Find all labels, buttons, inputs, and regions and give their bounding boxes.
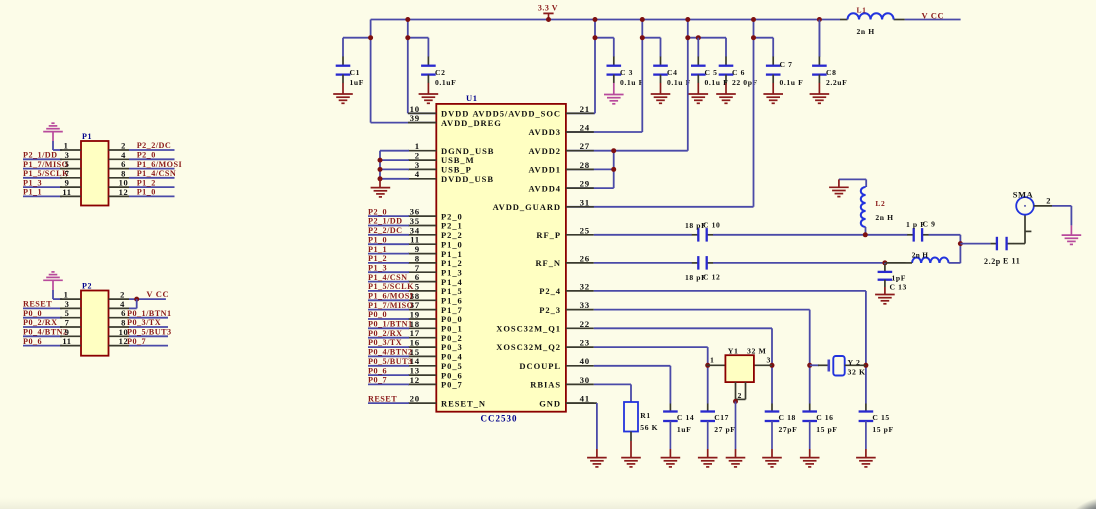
svg-text:0.1uF: 0.1uF [435, 78, 456, 87]
svg-text:C4: C4 [667, 68, 677, 77]
svg-text:P1_4/CSN: P1_4/CSN [368, 273, 408, 282]
svg-text:2: 2 [738, 391, 743, 400]
svg-text:P1_7/MISO: P1_7/MISO [23, 160, 68, 169]
svg-text:P0_5/BUT3: P0_5/BUT3 [127, 328, 172, 337]
svg-text:R1: R1 [640, 411, 650, 420]
svg-text:P2_4: P2_4 [539, 286, 561, 296]
svg-text:DVDD_USB: DVDD_USB [441, 174, 494, 184]
svg-text:P0_7: P0_7 [441, 380, 463, 390]
svg-text:C 6: C 6 [732, 68, 745, 77]
svg-text:C 3: C 3 [620, 68, 633, 77]
svg-text:P1_6/MOSI: P1_6/MOSI [368, 292, 413, 301]
svg-text:2n H: 2n H [857, 27, 875, 36]
svg-text:2.2uF: 2.2uF [826, 78, 847, 87]
svg-text:AVDD_DREG: AVDD_DREG [441, 118, 502, 128]
svg-text:32 K: 32 K [848, 368, 866, 377]
svg-text:29: 29 [580, 179, 590, 189]
svg-text:2n H: 2n H [875, 213, 893, 222]
svg-text:C 5: C 5 [705, 68, 718, 77]
svg-text:P1_5/SCLK: P1_5/SCLK [23, 169, 69, 178]
svg-text:C 13: C 13 [890, 283, 907, 292]
svg-text:P1_2: P1_2 [368, 254, 387, 263]
svg-text:P0_7: P0_7 [127, 337, 146, 346]
svg-text:AVDD4: AVDD4 [529, 183, 561, 193]
svg-text:DCOUPL: DCOUPL [519, 361, 561, 371]
svg-text:1: 1 [64, 141, 69, 151]
svg-text:AVDD3: AVDD3 [529, 127, 561, 137]
svg-text:21: 21 [580, 104, 590, 114]
svg-text:RESET: RESET [368, 394, 397, 403]
svg-text:RBIAS: RBIAS [530, 380, 561, 390]
svg-text:P0_1/BTN1: P0_1/BTN1 [127, 309, 172, 318]
svg-text:C17: C17 [714, 413, 729, 422]
svg-text:P2_2/DC: P2_2/DC [368, 226, 403, 235]
svg-text:P1_3: P1_3 [23, 178, 42, 187]
svg-text:20: 20 [410, 394, 420, 404]
svg-text:2: 2 [1046, 196, 1051, 206]
svg-text:C 12: C 12 [703, 273, 720, 282]
svg-text:1uF: 1uF [350, 78, 364, 87]
svg-text:AVDD1: AVDD1 [529, 165, 561, 175]
svg-text:C1: C1 [350, 68, 360, 77]
svg-text:P2: P2 [82, 282, 92, 291]
svg-text:SMA: SMA [1013, 190, 1034, 200]
svg-text:P0_0: P0_0 [368, 310, 387, 319]
svg-text:P1_0: P1_0 [137, 188, 156, 197]
svg-text:P2_0: P2_0 [368, 207, 387, 216]
svg-text:C8: C8 [826, 68, 836, 77]
svg-text:P0_2/RX: P0_2/RX [23, 318, 58, 327]
svg-text:27 pF: 27 pF [714, 425, 735, 434]
svg-text:Y1: Y1 [728, 347, 739, 356]
svg-text:RESET: RESET [23, 300, 52, 309]
svg-text:P0_2/RX: P0_2/RX [368, 329, 403, 338]
svg-text:11: 11 [62, 336, 71, 346]
svg-text:0.1u F: 0.1u F [780, 78, 804, 87]
svg-text:P1_4/CSN: P1_4/CSN [137, 169, 177, 178]
svg-text:40: 40 [580, 356, 590, 366]
svg-text:3: 3 [767, 356, 772, 365]
svg-text:2n H: 2n H [912, 251, 928, 260]
svg-text:0.1u F: 0.1u F [620, 78, 644, 87]
svg-text:AVDD_GUARD: AVDD_GUARD [493, 202, 561, 212]
svg-text:RF_P: RF_P [536, 230, 561, 240]
svg-text:V CC: V CC [922, 11, 945, 21]
svg-text:P2_0: P2_0 [137, 151, 156, 160]
svg-text:XOSC32M_Q2: XOSC32M_Q2 [496, 342, 561, 352]
svg-text:P2_1/DD: P2_1/DD [368, 217, 403, 226]
svg-text:RF_N: RF_N [535, 258, 561, 268]
svg-text:26: 26 [580, 253, 590, 263]
svg-text:P0_0: P0_0 [23, 309, 42, 318]
svg-text:32 M: 32 M [747, 347, 767, 356]
svg-text:CC2530: CC2530 [481, 414, 518, 424]
svg-text:25: 25 [580, 225, 590, 235]
svg-text:L2: L2 [875, 199, 885, 208]
svg-text:P0_4/BTN2: P0_4/BTN2 [23, 328, 68, 337]
svg-text:28: 28 [580, 160, 590, 170]
svg-text:P1_6/MOSI: P1_6/MOSI [137, 160, 182, 169]
svg-text:1pF: 1pF [892, 274, 906, 283]
svg-text:27: 27 [580, 141, 590, 151]
svg-text:27pF: 27pF [779, 425, 798, 434]
svg-text:E 11: E 11 [1003, 257, 1020, 266]
svg-text:1: 1 [64, 290, 69, 300]
svg-text:P0_3/TX: P0_3/TX [127, 318, 161, 327]
svg-text:30: 30 [580, 375, 590, 385]
svg-text:P0_5/BUT3: P0_5/BUT3 [368, 357, 413, 366]
svg-text:XOSC32M_Q1: XOSC32M_Q1 [496, 324, 561, 334]
svg-text:C 14: C 14 [677, 413, 694, 422]
svg-text:39: 39 [410, 113, 420, 123]
svg-text:41: 41 [580, 394, 590, 404]
svg-text:11: 11 [62, 187, 71, 197]
svg-text:C 10: C 10 [703, 221, 720, 230]
svg-text:C 9: C 9 [923, 220, 936, 229]
svg-text:P1_3: P1_3 [368, 263, 387, 272]
svg-text:32: 32 [580, 281, 590, 291]
svg-text:P2_1/DD: P2_1/DD [23, 151, 58, 160]
svg-text:RESET_N: RESET_N [441, 398, 486, 408]
svg-text:P0_3/TX: P0_3/TX [368, 338, 402, 347]
svg-text:12: 12 [119, 187, 129, 197]
svg-text:P0_6: P0_6 [368, 366, 387, 375]
svg-text:0.1u F: 0.1u F [705, 78, 729, 87]
svg-text:C2: C2 [435, 68, 445, 77]
svg-text:C 16: C 16 [816, 413, 833, 422]
svg-text:P0_7: P0_7 [368, 376, 387, 385]
svg-text:P1_2: P1_2 [137, 178, 156, 187]
svg-text:3.3 V: 3.3 V [538, 4, 558, 13]
svg-text:56 K: 56 K [640, 423, 658, 432]
svg-text:33: 33 [580, 300, 590, 310]
svg-text:AVDD5/AVDD_SOC: AVDD5/AVDD_SOC [472, 109, 561, 119]
svg-text:P2_2/DC: P2_2/DC [137, 141, 172, 150]
svg-text:P1_1: P1_1 [23, 188, 42, 197]
svg-text:2.2p: 2.2p [984, 257, 1001, 266]
svg-text:15 pF: 15 pF [872, 425, 893, 434]
svg-text:AVDD2: AVDD2 [529, 146, 561, 156]
svg-text:4: 4 [415, 169, 420, 179]
svg-text:U1: U1 [466, 93, 478, 103]
svg-text:1: 1 [710, 356, 715, 365]
svg-text:Y 2: Y 2 [848, 358, 861, 367]
svg-text:C 18: C 18 [779, 413, 796, 422]
svg-text:31: 31 [580, 197, 590, 207]
svg-text:24: 24 [580, 123, 590, 133]
svg-text:P1_0: P1_0 [368, 235, 387, 244]
svg-text:C 7: C 7 [780, 60, 793, 69]
svg-text:P1_5/SCLK: P1_5/SCLK [368, 282, 414, 291]
svg-text:P0_6: P0_6 [23, 337, 42, 346]
svg-text:P0_1/BTN1: P0_1/BTN1 [368, 320, 413, 329]
svg-text:12: 12 [410, 375, 420, 385]
svg-text:1uF: 1uF [677, 425, 691, 434]
svg-text:GND: GND [539, 398, 561, 408]
svg-text:P1: P1 [82, 132, 92, 141]
svg-text:P1_7/MISO: P1_7/MISO [368, 301, 413, 310]
svg-text:23: 23 [580, 338, 590, 348]
svg-text:15 pF: 15 pF [816, 425, 837, 434]
svg-text:C 15: C 15 [872, 413, 889, 422]
svg-text:V CC: V CC [146, 289, 169, 299]
svg-text:P2_3: P2_3 [539, 305, 561, 315]
svg-text:P1_1: P1_1 [368, 245, 387, 254]
svg-text:22: 22 [580, 319, 590, 329]
svg-text:L1: L1 [857, 6, 867, 15]
svg-text:P0_4/BTN2: P0_4/BTN2 [368, 348, 413, 357]
